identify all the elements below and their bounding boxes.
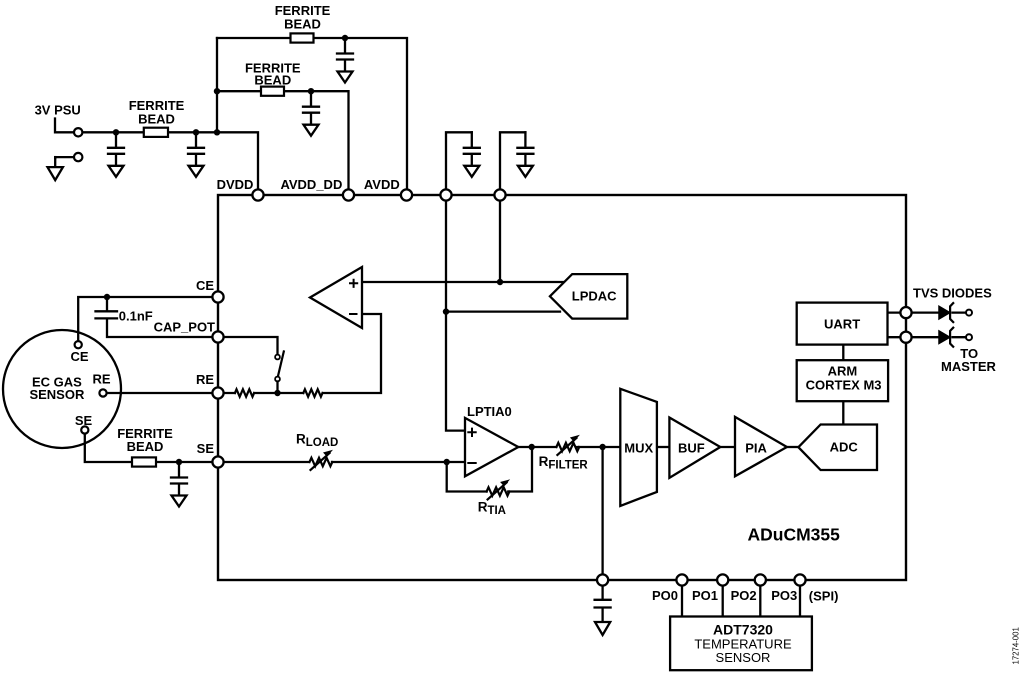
node junction row 2 cap — [308, 88, 314, 94]
capacitor C4 to ground on row 2 — [303, 91, 319, 136]
op-amp U1 minus marking — [350, 313, 357, 315]
svg-text:RLOAD: RLOAD — [296, 432, 338, 450]
wire CAP_POT to switch — [218, 337, 278, 355]
svg-text:(SPI): (SPI) — [809, 589, 839, 604]
ADT7320 temperature sensor block — [670, 617, 812, 671]
LPTIA0 minus marking — [468, 462, 475, 464]
capacitor C3 to ground on row 1 — [337, 38, 353, 83]
switch S1 contact bottom — [275, 377, 280, 382]
node junction 0.1nF tap — [104, 294, 110, 300]
wire sensor SE through ferrite bead to SE pin — [85, 435, 218, 463]
svg-text:SE: SE — [197, 441, 215, 456]
node junction SE cap — [176, 459, 182, 465]
svg-text:PO2: PO2 — [731, 588, 757, 603]
wire TVS diode 2 to terminal — [953, 336, 967, 338]
ferrite bead FB3 (row 2) — [261, 87, 284, 96]
wire TVS diode 1 to terminal — [953, 311, 967, 313]
ferrite bead FB1 (3V PSU) — [144, 128, 168, 137]
wire UART to ARM cortex — [842, 345, 844, 361]
svg-text:TVS DIODES: TVS DIODES — [913, 285, 992, 300]
wire 3V PSU stub to DVDD rail — [55, 119, 258, 190]
wire R_LOAD to LPTIA0 inverting input — [332, 461, 464, 463]
wire RE to op-amp inverting input — [323, 314, 381, 393]
ARM CORTEX M3 block — [797, 360, 888, 401]
wire feedback up to output — [508, 447, 532, 492]
wire ferrite row 2 to AVDD_DD — [217, 91, 349, 189]
op-amp U1 plus marking — [350, 280, 357, 287]
pin RE — [212, 387, 223, 398]
wire ARM cortex to ADC — [842, 401, 844, 424]
wire LPDAC lower output — [446, 310, 560, 312]
wire switch to RE node — [276, 382, 278, 394]
switch S1 contact top — [275, 355, 280, 360]
svg-text:PIA: PIA — [745, 441, 767, 456]
ground triangle at bottom capacitor — [595, 622, 610, 635]
pin SE — [212, 456, 223, 467]
wire right pin 2 to TVS diode 2 — [912, 336, 939, 338]
svg-text:PO1: PO1 — [692, 588, 718, 603]
wire vertical feed x=217 — [216, 38, 218, 132]
svg-text:MASTER: MASTER — [941, 359, 997, 374]
node junction row 2 tap — [214, 88, 220, 94]
svg-text:3V PSU: 3V PSU — [35, 102, 81, 117]
MUX block — [620, 389, 657, 506]
TVS diode D1 — [939, 303, 953, 322]
terminal 3V PSU return — [74, 153, 82, 161]
wire BUF to PIA — [720, 446, 735, 448]
svg-text:UART: UART — [824, 317, 860, 332]
svg-text:MUX: MUX — [624, 440, 653, 455]
capacitor C1 to ground at PSU node — [108, 132, 124, 177]
svg-text:LPDAC: LPDAC — [572, 288, 617, 303]
op-amp U1 (CE drive) — [310, 267, 362, 328]
node junction row 1 cap — [342, 35, 348, 41]
wire R_FILTER to MUX — [577, 446, 621, 448]
wire sensor CE to CE pin — [78, 297, 218, 341]
pin bottom filter — [597, 574, 608, 585]
resistor R_TIA variable — [487, 479, 511, 499]
wire ground return bend at PSU — [55, 156, 74, 159]
node junction MUX input — [599, 444, 605, 450]
pin UART out 2 — [900, 332, 911, 343]
svg-text:ARM: ARM — [828, 364, 858, 379]
pin CE — [212, 291, 223, 302]
wire RE mid — [254, 392, 303, 394]
resistor R_FILTER variable — [556, 435, 580, 455]
pin DVDD — [252, 189, 263, 200]
svg-text:17274-001: 17274-001 — [1012, 627, 1021, 664]
wire ferrite row 1 to AVDD — [217, 38, 407, 189]
svg-text:BEAD: BEAD — [127, 439, 164, 454]
svg-text:BUF: BUF — [678, 441, 705, 456]
wire PO2 to temperature sensor — [759, 586, 761, 617]
ferrite bead FB4 (SE line) — [132, 457, 156, 466]
terminal 3V PSU positive — [74, 128, 82, 136]
wire AVDD pin5 down to plus node — [499, 200, 501, 282]
wire op-amp non-inverting input to LPDAC — [362, 281, 566, 283]
wire right pin 1 to TVS diode 1 — [912, 311, 939, 313]
BUF amplifier triangle — [669, 418, 720, 478]
svg-text:BEAD: BEAD — [254, 73, 291, 88]
svg-text:CORTEX M3: CORTEX M3 — [806, 378, 882, 393]
EC gas sensor circle — [3, 330, 121, 448]
op-amp LPTIA0 — [465, 418, 518, 476]
node junction PSU cap 1 — [113, 129, 119, 135]
svg-text:RE: RE — [196, 372, 214, 387]
node junction LPTIA0 output — [529, 444, 535, 450]
terminal to master 2 — [966, 334, 972, 340]
svg-text:SE: SE — [75, 413, 93, 428]
svg-text:AVDD_DD: AVDD_DD — [280, 177, 342, 192]
sensor terminal SE — [81, 426, 88, 433]
wire UART to right pin 2 — [888, 336, 907, 338]
node junction LPDAC lower — [443, 308, 449, 314]
pin AVDD — [401, 189, 412, 200]
wire PO3 to temperature sensor — [799, 586, 801, 617]
pin CAP_POT — [212, 331, 223, 342]
wire decoupling hat 1 — [446, 132, 472, 189]
capacitor 0.1nF — [96, 297, 219, 337]
svg-text:CAP_POT: CAP_POT — [154, 320, 215, 335]
wire MUX node down to bottom pin — [601, 447, 603, 575]
wire LPTIA0 output to R_FILTER — [516, 446, 556, 448]
capacitor C7 to ground on SE line — [171, 462, 187, 507]
svg-text:ADuCM355: ADuCM355 — [748, 525, 841, 545]
PIA amplifier triangle — [735, 417, 787, 476]
pin AVDD_DD — [343, 189, 354, 200]
wire LPTIA0 feedback lower loop — [447, 462, 487, 492]
pin PO3 — [794, 574, 805, 585]
pin PO0 — [676, 574, 687, 585]
wire decoupling hat 2 — [500, 132, 525, 189]
svg-text:CE: CE — [70, 349, 88, 364]
svg-text:BEAD: BEAD — [138, 112, 175, 127]
node junction PSU feed — [214, 129, 220, 135]
pin decoupling 4 — [440, 189, 451, 200]
pin PO1 — [717, 574, 728, 585]
svg-text:PO0: PO0 — [652, 588, 678, 603]
resistor R_LOAD variable — [310, 450, 334, 470]
svg-text:SENSOR: SENSOR — [716, 650, 771, 665]
wire UART to right pin 1 — [888, 311, 907, 313]
svg-text:BEAD: BEAD — [284, 17, 321, 32]
svg-text:PO3: PO3 — [771, 588, 797, 603]
pin UART out 1 — [900, 307, 911, 318]
switch S1 lever — [278, 352, 284, 377]
UART block — [797, 303, 888, 345]
ground at PSU return — [48, 157, 63, 180]
resistor on RE line left — [235, 389, 254, 396]
node junction plus wire — [497, 279, 503, 285]
svg-text:AVDD: AVDD — [364, 177, 400, 192]
node junction switch to RE — [274, 390, 280, 396]
wire PO0 to temperature sensor — [681, 586, 683, 617]
sensor terminal RE — [99, 389, 106, 396]
ADuCM355 main block outline — [218, 195, 906, 580]
pin PO2 — [755, 574, 766, 585]
svg-text:ADC: ADC — [830, 440, 859, 455]
svg-text:CE: CE — [196, 278, 214, 293]
node junction PSU cap 2 — [193, 129, 199, 135]
svg-text:RFILTER: RFILTER — [539, 454, 589, 472]
wire PIA to ADC — [787, 446, 799, 448]
svg-text:ADT7320: ADT7320 — [713, 621, 773, 637]
ferrite bead FB2 (row 1) — [291, 33, 314, 42]
sensor terminal CE — [75, 341, 82, 348]
wire SE pin to R_LOAD — [224, 461, 309, 463]
svg-text:RTIA: RTIA — [478, 500, 506, 518]
pin decoupling 5 — [494, 189, 505, 200]
ADC block — [798, 425, 877, 471]
svg-text:LPTIA0: LPTIA0 — [467, 404, 512, 419]
node junction LPTIA0 inverting — [444, 459, 450, 465]
capacitor C2 to ground after ferrite bead — [188, 132, 204, 177]
capacitor C5 to ground on hat 1 — [464, 132, 480, 177]
svg-text:0.1nF: 0.1nF — [119, 308, 153, 323]
svg-text:DVDD: DVDD — [217, 177, 254, 192]
wire sensor RE to RE pin — [107, 392, 235, 394]
LPTIA0 plus marking — [468, 429, 475, 436]
wire MUX to BUF — [657, 446, 670, 448]
capacitor C8 to ground at bottom pin — [595, 586, 611, 622]
resistor on RE line right — [303, 389, 322, 396]
wire pin4 down to LPTIA0 plus input — [446, 200, 464, 431]
capacitor C6 to ground on hat 2 — [517, 132, 533, 177]
svg-text:SENSOR: SENSOR — [29, 387, 85, 402]
LPDAC block — [550, 274, 627, 319]
TVS diode D2 — [939, 328, 953, 347]
svg-text:RE: RE — [92, 371, 110, 386]
wire PO1 to temperature sensor — [722, 586, 724, 617]
terminal to master 1 — [966, 310, 972, 316]
